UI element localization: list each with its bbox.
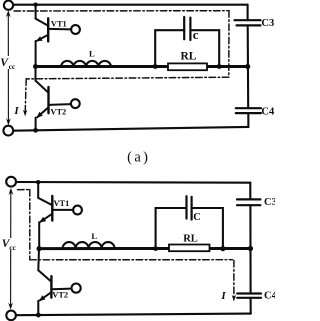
VT2b emitter diagonal with arrow	[40, 292, 52, 300]
VT1b collector diagonal	[38, 198, 52, 205]
Vcc measuring arrow (b)	[8, 188, 13, 310]
current arrow I (a)	[23, 110, 27, 117]
VT1b emitter wire	[38, 222, 40, 248]
svg-text:cc: cc	[9, 243, 16, 252]
svg-text:RL: RL	[181, 51, 197, 63]
resistor RL (a)	[168, 63, 207, 70]
wire: bottom rail (b)	[16, 314, 251, 316]
svg-text:C4: C4	[261, 106, 275, 117]
junction: tank right / main line (b)	[220, 246, 225, 251]
VT2 emitter diagonal with arrow	[37, 107, 48, 117]
wire: tank right branch (a)	[190, 30, 219, 66]
junction: top rail / VT1 collector (b)	[36, 180, 40, 184]
VT2b base lead	[51, 288, 71, 291]
svg-text:L: L	[91, 231, 97, 241]
terminal: bottom-left (a)	[3, 126, 13, 136]
wire: main output line (a)	[36, 65, 248, 68]
svg-text:RL: RL	[183, 234, 198, 245]
boundary: dash-dot current loop (a)	[14, 11, 229, 113]
VT2b collector wire	[37, 249, 40, 271]
wire: tank right branch (b)	[192, 208, 223, 249]
terminal: VT1 base input	[71, 25, 80, 34]
svg-text:I: I	[13, 105, 19, 117]
Vcc measuring arrow (a)	[6, 10, 11, 125]
VT1 collector wire	[35, 5, 37, 19]
terminal: VT2 base input (b)	[72, 284, 81, 293]
svg-text:C3: C3	[261, 18, 274, 29]
VT1b emitter diagonal with arrow	[40, 214, 52, 222]
wire: right rail middle segment (b)	[249, 205, 251, 248]
VT2 base bar	[47, 87, 49, 113]
transistor VT2 (b)	[38, 249, 71, 315]
svg-text:C4: C4	[264, 291, 275, 302]
VT2b base bar	[50, 276, 52, 297]
svg-text:L: L	[89, 48, 95, 58]
inductor L (b)	[63, 242, 115, 248]
transistor VT2	[36, 67, 71, 131]
terminal: VT2 base input	[71, 99, 80, 108]
transistor VT1 (b)	[38, 182, 73, 248]
junction: main line / right rail (a)	[245, 64, 250, 69]
junction: tank left / main line (a)	[153, 64, 158, 69]
VT2 collector diagonal	[36, 81, 49, 93]
svg-text:C: C	[193, 212, 201, 223]
svg-text:VT2: VT2	[52, 291, 68, 300]
wire: right rail upper segment (b)	[249, 183, 251, 200]
svg-text:VT1: VT1	[51, 19, 67, 28]
VT1 collector diagonal	[36, 19, 49, 26]
wire: tank left branch (b)	[156, 208, 187, 249]
svg-text:VT1: VT1	[54, 199, 70, 208]
label Vcc (a)	[0, 56, 16, 71]
VT1 base lead	[48, 28, 71, 31]
current arrow I (b)	[232, 295, 236, 302]
boundary: dash-dot current loop (b)	[18, 190, 234, 298]
capacitor C4 (b)	[237, 294, 261, 298]
VT2 emitter wire	[35, 118, 37, 131]
VT2b emitter wire	[37, 301, 39, 315]
junction: VT2 emitter / bottom rail (a)	[33, 128, 38, 133]
wire: top rail (a)	[13, 4, 248, 6]
junction: tank left / main line (b)	[153, 246, 158, 251]
capacitor C (a)	[184, 17, 190, 40]
wire: right rail middle segment (a)	[247, 25, 250, 108]
wire: right rail lower segment (a)	[247, 113, 249, 127]
terminal: top-left input terminal (a)	[4, 1, 13, 10]
VT1b base lead	[52, 209, 73, 211]
capacitor C3 (a)	[235, 20, 261, 25]
junction: tank right / main line (a)	[217, 64, 222, 69]
capacitor C (b)	[187, 196, 192, 219]
wire: right rail segment through C4 (b)	[249, 249, 251, 294]
resistor RL (b)	[169, 245, 210, 252]
svg-text:(a): (a)	[127, 150, 150, 166]
terminal: top-left input terminal (b)	[6, 177, 16, 187]
VT2 collector wire	[35, 67, 37, 81]
capacitor C3 (b)	[237, 199, 260, 205]
wire: top rail (b)	[16, 181, 250, 184]
capacitor C4 (a)	[236, 108, 261, 113]
junction: VT2 emitter / bottom rail (b)	[36, 313, 41, 318]
junction: top rail / VT1 collector (a)	[33, 2, 37, 6]
svg-text:I: I	[220, 290, 226, 302]
wire: right rail upper segment (a)	[247, 5, 249, 21]
svg-text:cc: cc	[9, 62, 16, 71]
terminal: bottom-left (b)	[6, 311, 16, 321]
label Vcc (b)	[1, 238, 18, 252]
junction: main line / right rail (b)	[248, 246, 253, 251]
VT2b collector diagonal	[38, 270, 51, 282]
VT1 base bar	[47, 18, 49, 41]
svg-text:VT2: VT2	[50, 107, 66, 116]
VT1 emitter wire	[35, 41, 37, 67]
terminal: VT1 base input (b)	[73, 206, 82, 215]
inductor L (a)	[61, 61, 111, 66]
svg-text:C3: C3	[264, 197, 275, 208]
junction: node emitter VT1 / L (a)	[33, 64, 38, 69]
wire: tank left branch (a)	[155, 30, 184, 66]
junction: node emitter VT1 / L (b)	[37, 246, 42, 251]
VT2 base lead	[49, 103, 71, 106]
VT1b collector wire	[37, 182, 39, 198]
wire: bottom rail (a)	[13, 127, 248, 131]
VT1 emitter diagonal with arrow	[37, 35, 48, 41]
wire: main output line (b)	[39, 247, 251, 250]
wire: right rail lower segment (b)	[250, 298, 252, 314]
VT1b base bar	[51, 196, 53, 221]
transistor VT1	[36, 5, 72, 67]
